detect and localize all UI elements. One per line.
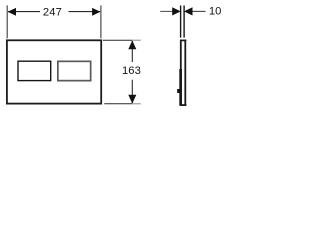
- svg-text:10: 10: [209, 6, 222, 18]
- svg-text:163: 163: [122, 65, 141, 77]
- svg-text:247: 247: [43, 7, 62, 19]
